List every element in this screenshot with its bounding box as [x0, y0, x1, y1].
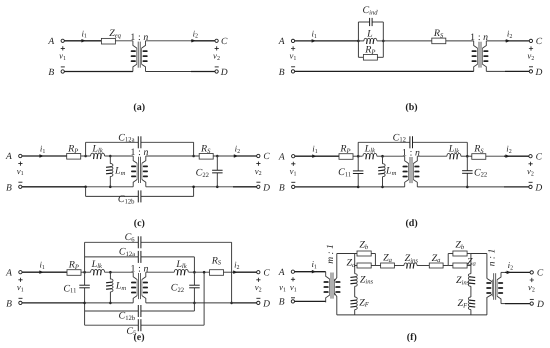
node A terminal	[19, 154, 22, 157]
svg-text:n : 1: n : 1	[488, 249, 498, 266]
svg-text:B: B	[279, 183, 285, 193]
wire transformer to Llk2	[146, 271, 174, 273]
inductor Llk primary	[363, 153, 377, 156]
node C terminal	[530, 271, 533, 274]
svg-text:1: 1	[402, 147, 407, 158]
svg-text::: :	[138, 147, 141, 158]
current arrow i1	[39, 270, 44, 274]
svg-text:C: C	[537, 269, 544, 279]
wire B to transformer	[295, 300, 326, 302]
impedance Zb right box	[453, 251, 467, 256]
wire Zins to Za2	[417, 265, 429, 267]
right rejoin vertical	[470, 254, 472, 266]
node after RP	[84, 155, 87, 158]
entry wire to ladder	[337, 253, 357, 255]
node B terminal	[19, 301, 22, 304]
inductor Llk secondary	[447, 153, 461, 156]
node C terminal	[257, 271, 260, 274]
transformer T7 n:1	[492, 272, 501, 303]
node D terminal	[529, 70, 532, 73]
node Lm	[109, 271, 112, 274]
capacitor C22 shunt	[216, 156, 218, 170]
D rail	[417, 186, 504, 188]
capacitor C22 shunt	[193, 272, 195, 285]
left split vertical	[354, 254, 356, 266]
transformer T3 1:n	[133, 156, 146, 187]
wire Za2 to right pair	[443, 265, 448, 267]
B rail	[22, 186, 86, 188]
capacitor C11 shunt	[79, 285, 90, 288]
svg-text:C: C	[536, 152, 543, 162]
C6 right vertical to D rail	[231, 242, 233, 303]
C12b right vertical	[193, 303, 195, 311]
node after RP	[83, 271, 86, 274]
resistor RS	[210, 270, 224, 276]
capacitor C12b bypass	[85, 310, 139, 312]
svg-text:D: D	[220, 68, 228, 78]
port voltage v1 marks	[61, 46, 65, 50]
current arrow i1	[81, 39, 86, 43]
left rejoin vertical	[374, 254, 376, 266]
wire transformer to D	[501, 303, 505, 305]
port voltage v2 marks	[215, 46, 219, 50]
inductor Llk	[91, 153, 105, 156]
svg-text:D: D	[536, 300, 544, 310]
wire A to Zeq	[64, 40, 101, 42]
circuit (b)	[278, 5, 543, 113]
B rail	[295, 186, 358, 188]
svg-text:(d): (d)	[405, 218, 417, 229]
capacitor C6 bypass	[85, 241, 139, 243]
inductor L middle branch	[358, 40, 364, 42]
wire A to RP	[295, 155, 340, 157]
C12b right vertical	[193, 187, 195, 197]
svg-text:A: A	[278, 37, 285, 47]
wire transformer to RS	[146, 155, 199, 157]
port voltage v2 marks	[256, 162, 260, 166]
transformer T6 m:1	[326, 272, 335, 303]
left shunt Zins	[354, 266, 356, 274]
wire transformer to C	[146, 40, 192, 42]
node B terminal	[291, 70, 294, 73]
svg-text:A: A	[278, 268, 285, 278]
transformer T5 1:n	[133, 272, 146, 303]
port voltage v2 marks	[529, 162, 533, 166]
svg-text:(e): (e)	[133, 332, 144, 343]
node B terminal	[19, 185, 22, 188]
wire B rail	[295, 70, 474, 72]
node A terminal	[19, 271, 22, 274]
current arrow i1	[312, 39, 317, 43]
node D terminal	[529, 185, 532, 188]
wire Zeq to transformer	[115, 40, 132, 42]
svg-text:1: 1	[130, 263, 135, 274]
svg-text:B: B	[279, 298, 285, 308]
capacitor Cind top branch	[358, 21, 369, 23]
right split vertical	[447, 254, 449, 266]
node D terminal	[530, 302, 533, 305]
C12a right vertical	[193, 142, 195, 156]
B rail	[22, 302, 85, 304]
svg-text:C: C	[536, 37, 543, 47]
svg-text:A: A	[5, 152, 12, 162]
resistor RS	[199, 154, 213, 160]
wire transformer to D	[486, 70, 505, 72]
node B terminal	[61, 70, 64, 73]
node C22 / C12a	[189, 271, 210, 273]
current arrow i1	[312, 270, 317, 274]
tank left vertical	[357, 22, 359, 57]
node C terminal	[257, 154, 260, 157]
resistor Zeq	[101, 38, 115, 44]
svg-text:A: A	[5, 268, 12, 278]
transformer T1 1:n	[133, 41, 146, 72]
svg-text::: :	[478, 32, 481, 43]
svg-text:(f): (f)	[407, 332, 417, 343]
C5 right vertical	[203, 271, 206, 274]
current arrow i2	[505, 154, 510, 158]
node D terminal	[257, 185, 260, 188]
svg-text:C: C	[263, 268, 270, 278]
capacitor C11 shunt	[357, 156, 359, 171]
svg-text:L: L	[366, 28, 373, 39]
svg-text:B: B	[279, 68, 285, 78]
impedance Za left box	[355, 265, 357, 267]
right transformer left riser	[486, 254, 488, 279]
port voltage v2 marks	[530, 278, 534, 282]
circuit (f)	[278, 239, 544, 343]
port voltage v2 marks	[256, 278, 260, 282]
capacitor C12a bypass	[86, 141, 139, 143]
exit wire upper	[471, 253, 487, 255]
svg-text:C: C	[263, 152, 270, 162]
node Lm	[381, 155, 384, 158]
resistor RS	[472, 154, 486, 160]
port voltage v1 marks	[291, 277, 295, 281]
wire transformer to Llk2	[417, 155, 447, 157]
capacitor C22 shunt	[466, 156, 468, 171]
svg-text:(c): (c)	[134, 218, 145, 229]
secondary top riser	[334, 254, 336, 281]
right shunt ZF	[470, 286, 472, 297]
svg-text:(a): (a)	[133, 102, 145, 113]
wire A to parallel network	[295, 40, 359, 42]
impedance Za right box	[448, 265, 453, 267]
wire RS to C	[486, 155, 504, 157]
svg-text:A: A	[47, 37, 54, 47]
wire RS to C	[224, 271, 233, 273]
C12 right vertical	[466, 142, 468, 156]
svg-text:C: C	[221, 37, 228, 47]
current arrow i2	[507, 271, 512, 275]
node D terminal	[257, 301, 260, 304]
resistor RP bottom branch	[358, 56, 363, 58]
resistor RP	[339, 154, 353, 160]
C12b left vertical	[84, 186, 87, 189]
resistor RP	[67, 154, 81, 160]
svg-text:D: D	[262, 183, 270, 193]
port voltage v1 marks	[18, 278, 22, 282]
tank right vertical	[382, 40, 385, 43]
capacitor C12a bypass	[85, 256, 139, 258]
current arrow i2	[506, 39, 511, 43]
svg-text:D: D	[534, 68, 542, 78]
wire to Za1	[375, 265, 380, 267]
left vertical C6/C12a/C11/C12b/C5	[84, 242, 86, 272]
node C terminal	[529, 155, 532, 158]
wire RS to transformer	[446, 40, 474, 42]
ladder bottom rail	[337, 314, 487, 316]
wire A to transformer	[295, 271, 326, 273]
svg-text:D: D	[534, 183, 542, 193]
C12 left vertical	[357, 142, 359, 156]
svg-text:1: 1	[130, 147, 135, 158]
svg-text:(b): (b)	[405, 102, 417, 113]
node Lm	[109, 155, 112, 158]
wire tank to RS	[383, 40, 432, 42]
svg-text:1: 1	[470, 32, 475, 43]
wire B rail	[64, 71, 133, 73]
impedance Za series 1	[381, 263, 395, 268]
current arrow i1	[39, 154, 44, 158]
node A terminal	[61, 39, 64, 42]
svg-text:1: 1	[130, 32, 135, 43]
D rail	[146, 186, 233, 188]
svg-text:B: B	[48, 68, 54, 78]
svg-text::: :	[138, 263, 141, 274]
impedance Za series 2	[429, 263, 443, 268]
capacitor C12 bypass	[358, 141, 410, 143]
capacitor C12b bypass	[86, 195, 139, 197]
D rail	[146, 302, 233, 304]
node B terminal	[291, 300, 294, 303]
wire transformer to C	[486, 40, 505, 42]
wire transformer to D	[146, 71, 192, 73]
wire A to RP	[22, 271, 67, 273]
transformer T2 1:n	[474, 41, 487, 72]
node B terminal	[292, 185, 295, 188]
current arrow i2	[233, 270, 238, 274]
inductor Lm shunt	[109, 272, 111, 279]
inductor Llk secondary	[174, 269, 188, 272]
node A terminal	[291, 39, 294, 42]
circuit (e)	[5, 232, 270, 343]
impedance Zb left box	[357, 251, 371, 256]
inductor Llk primary	[91, 269, 105, 272]
svg-text:B: B	[6, 299, 12, 309]
wire transformer to C	[501, 271, 505, 273]
right transformer left bottom riser	[487, 294, 492, 315]
svg-text:D: D	[262, 299, 270, 309]
svg-text::: :	[138, 32, 141, 43]
resistor RP	[67, 270, 81, 276]
current arrow i2	[191, 39, 196, 43]
current arrow i1	[312, 154, 317, 158]
left transformer bottom riser	[334, 293, 336, 315]
inductor Lm shunt	[109, 156, 111, 164]
circuit (c)	[5, 132, 270, 229]
C12a right vertical	[193, 257, 195, 272]
svg-text:B: B	[6, 183, 12, 193]
circuit (d)	[278, 132, 543, 229]
svg-text::: :	[410, 147, 413, 158]
port voltage v1 marks	[291, 162, 295, 166]
node A terminal	[291, 270, 294, 273]
capacitor C5 bypass	[85, 324, 139, 326]
wire A to RP	[22, 155, 67, 157]
transformer T4 1:n	[405, 156, 418, 187]
left shunt ZF	[354, 286, 356, 297]
node D terminal	[215, 70, 218, 73]
port voltage v1 marks	[291, 46, 295, 50]
node C22	[466, 155, 469, 158]
svg-text:A: A	[278, 152, 285, 162]
current arrow i2	[234, 154, 239, 158]
node C terminal	[529, 39, 532, 42]
port voltage v2 marks	[529, 46, 533, 50]
port voltage v1 marks	[18, 162, 22, 166]
node A terminal	[292, 155, 295, 158]
C12a left vertical	[85, 142, 87, 156]
node left of RLC tank	[357, 40, 360, 43]
right shunt Zins	[470, 266, 472, 274]
svg-text:m : 1: m : 1	[326, 244, 336, 264]
resistor RS	[432, 38, 446, 44]
inductor Zins series	[404, 263, 417, 266]
node C11	[357, 155, 360, 158]
node C terminal	[215, 39, 218, 42]
wire Za1 to Zins	[394, 265, 404, 267]
node C22	[216, 155, 219, 158]
wire RS to C	[234, 155, 257, 157]
circuit (a)	[47, 28, 228, 113]
inductor Lm shunt	[382, 156, 384, 164]
